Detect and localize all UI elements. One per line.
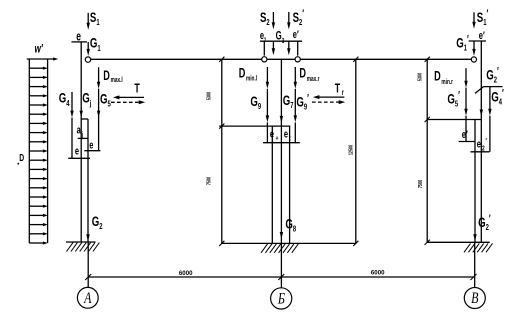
svg-text:max.r: max.r xyxy=(307,76,320,83)
svg-text:D: D xyxy=(299,67,306,81)
svg-text:12500: 12500 xyxy=(348,145,354,156)
svg-text::: : xyxy=(289,136,291,143)
svg-text:e: e xyxy=(270,127,274,140)
svg-text:В: В xyxy=(471,290,479,308)
svg-text:e: e xyxy=(75,144,79,157)
svg-text:e′: e′ xyxy=(462,127,469,140)
svg-text:+: + xyxy=(276,136,279,143)
svg-text:a: a xyxy=(77,123,82,136)
svg-text:min.r: min.r xyxy=(441,79,453,86)
svg-text:A: A xyxy=(83,289,91,307)
svg-text:6000: 6000 xyxy=(371,269,385,276)
svg-text:e,: e, xyxy=(260,29,266,42)
svg-text:5300: 5300 xyxy=(206,92,212,101)
svg-text:D: D xyxy=(434,70,441,84)
svg-text:r: r xyxy=(342,89,344,97)
svg-text:min.l: min.l xyxy=(246,76,257,83)
svg-text:5300: 5300 xyxy=(417,73,423,82)
svg-text:D: D xyxy=(19,152,24,164)
svg-text:e′: e′ xyxy=(293,28,300,41)
svg-text:T: T xyxy=(335,82,341,96)
svg-text:6000: 6000 xyxy=(179,270,193,277)
svg-text:e: e xyxy=(284,127,288,140)
svg-text:e: e xyxy=(477,137,481,150)
svg-text:Б: Б xyxy=(277,290,285,308)
svg-text:7500: 7500 xyxy=(206,177,212,186)
svg-text:w′: w′ xyxy=(35,43,44,56)
svg-text:D: D xyxy=(239,67,246,81)
svg-text:e: e xyxy=(89,138,93,151)
svg-text:D: D xyxy=(103,69,110,83)
svg-text:e′: e′ xyxy=(479,29,486,42)
svg-text:max.l: max.l xyxy=(111,78,123,85)
svg-text:T: T xyxy=(134,82,140,96)
svg-text:7500: 7500 xyxy=(417,180,423,189)
